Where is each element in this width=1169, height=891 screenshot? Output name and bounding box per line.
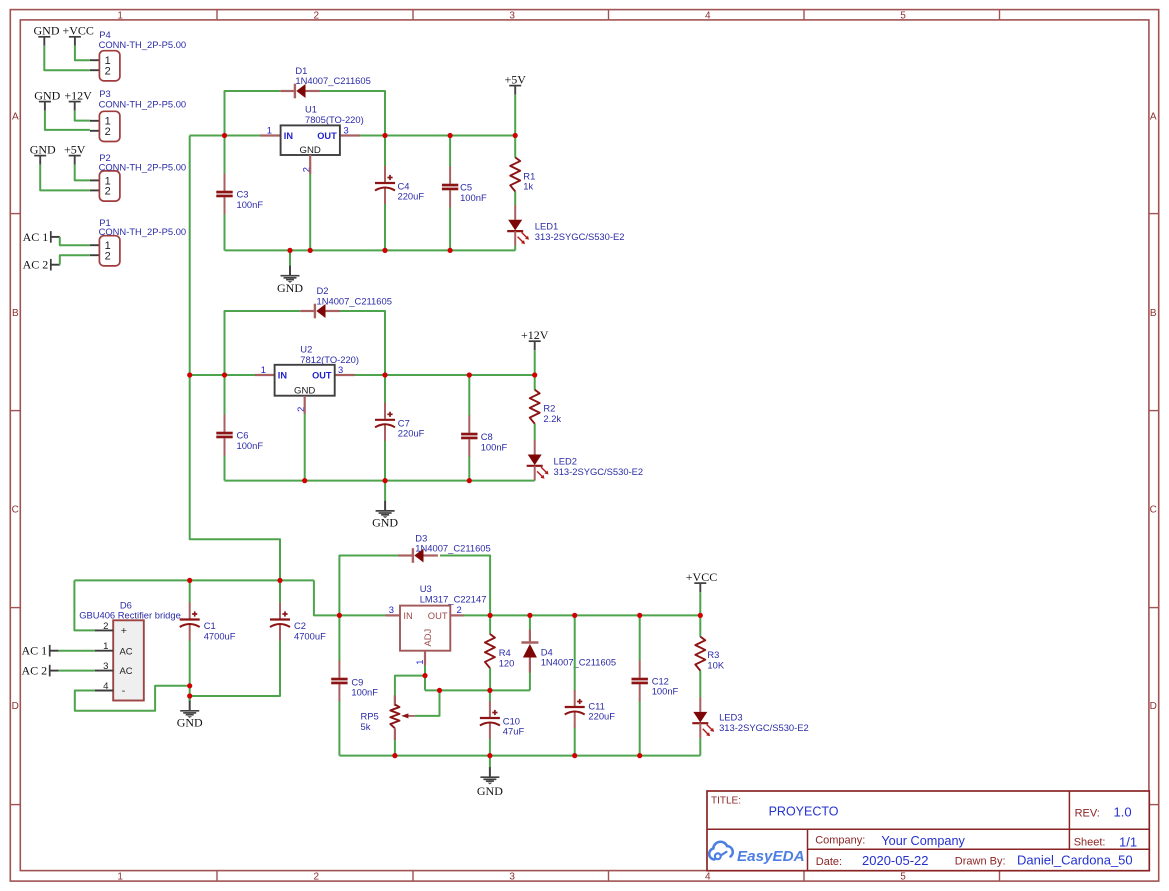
junction at (304.7,480.6) (302, 478, 307, 483)
svg-text:EasyEDA: EasyEDA (737, 848, 805, 865)
svg-text:CONN-TH_2P-P5.00: CONN-TH_2P-P5.00 (99, 98, 187, 109)
junction at (385,375) (382, 372, 387, 377)
svg-text:R3: R3 (707, 649, 719, 660)
wire U2 pin2 down (304, 414, 306, 481)
svg-text:7805(TO-220): 7805(TO-220) (305, 114, 364, 125)
wire C7 column (384, 375, 386, 481)
svg-text:2: 2 (105, 126, 111, 138)
label D2 (317, 285, 392, 306)
svg-text:Drawn By:: Drawn By: (955, 856, 1006, 868)
wire bridge top (74, 579, 314, 581)
U2 pin3 stub (335, 374, 355, 376)
EasyEDA logo (709, 842, 804, 865)
svg-text:D: D (12, 701, 19, 712)
wire loop D1 right (320, 91, 385, 136)
svg-text:U1: U1 (305, 104, 317, 115)
label R2 (543, 403, 561, 424)
svg-text:Company:: Company: (815, 835, 865, 847)
resistor R4 (485, 634, 495, 668)
svg-text:220uF: 220uF (398, 191, 425, 202)
label LED2 (554, 456, 644, 477)
junction at (489.9,690.4) (487, 688, 492, 693)
svg-text:+5V: +5V (504, 72, 526, 86)
D6 pin stubs (95, 630, 114, 690)
regulator U1 box (281, 125, 340, 155)
svg-text:AC 2: AC 2 (22, 664, 48, 678)
junction at (700.3,615.4) (698, 613, 703, 618)
capacitor C10 (480, 701, 500, 739)
svg-text:1k: 1k (523, 181, 533, 192)
svg-text:10K: 10K (707, 660, 724, 671)
wire R4 column (489, 615, 491, 690)
svg-text:GND: GND (372, 516, 398, 530)
capacitor C1 (180, 603, 200, 641)
junction at (290,250.4) (287, 248, 292, 253)
label U1 (305, 104, 364, 126)
svg-text:U3: U3 (420, 583, 432, 594)
svg-text:RP5: RP5 (361, 711, 379, 722)
label GND1 (277, 281, 303, 295)
svg-text:LED2: LED2 (554, 456, 577, 467)
label P3 (99, 88, 187, 110)
junction at (189.7,696) (187, 693, 192, 698)
svg-text:5: 5 (900, 871, 906, 882)
LED LED1 (507, 205, 529, 246)
power flag +VCC (686, 570, 717, 592)
diode D3 (398, 548, 438, 563)
svg-text:C7: C7 (398, 417, 410, 428)
junction at (189.7,375) (187, 372, 192, 377)
svg-text:D: D (1150, 701, 1157, 712)
svg-text:1: 1 (117, 871, 123, 882)
svg-text:B: B (12, 308, 19, 319)
U3 pin numbers (389, 604, 462, 665)
port GND P2 (30, 142, 56, 164)
svg-text:Date:: Date: (816, 856, 842, 868)
label C6 (237, 430, 264, 451)
wire R1 column (514, 136, 516, 251)
svg-text:Daniel_Cardona_50: Daniel_Cardona_50 (1017, 853, 1133, 868)
wire R2 column (534, 375, 536, 481)
port AC 2 P1 (23, 258, 60, 272)
U1 pin3 stub (340, 134, 360, 136)
svg-text:2.2k: 2.2k (543, 413, 561, 424)
label U3 (420, 583, 487, 604)
wire adj rail (425, 689, 530, 691)
label C1 (204, 620, 236, 641)
svg-text:AC: AC (120, 645, 133, 656)
label C5 (460, 182, 487, 203)
wire GND to P4.2 (44, 46, 90, 70)
svg-text:3: 3 (338, 364, 343, 375)
svg-text:C12: C12 (652, 675, 669, 686)
connector P3 (90, 111, 120, 141)
date row (816, 853, 1133, 869)
junction at (385,250.4) (382, 248, 387, 253)
wire rail1 (225, 249, 516, 251)
junction at (385.1,480.6) (383, 478, 388, 483)
svg-text:2: 2 (314, 871, 320, 882)
label C2 (294, 620, 326, 641)
svg-text:D6: D6 (120, 599, 132, 610)
svg-text:4: 4 (705, 871, 711, 882)
svg-text:A: A (12, 112, 19, 123)
svg-text:1N4007_C211605: 1N4007_C211605 (415, 543, 490, 554)
svg-text:D4: D4 (541, 646, 553, 657)
svg-text:313-2SYGC/S530-E2: 313-2SYGC/S530-E2 (554, 466, 644, 477)
ground GND1 (281, 250, 300, 283)
ground GND2 (376, 481, 395, 518)
svg-text:-: - (122, 685, 126, 697)
label R3 (707, 649, 724, 670)
wire main1 left (190, 135, 262, 137)
svg-text:D1: D1 (295, 65, 307, 76)
svg-text:GND: GND (277, 281, 303, 295)
svg-text:313-2SYGC/S530-E2: 313-2SYGC/S530-E2 (535, 231, 625, 242)
label D4 (541, 646, 616, 667)
junction at (574.7,755.6) (572, 753, 577, 758)
port AC 1 P1 (23, 230, 60, 244)
svg-text:C6: C6 (237, 430, 249, 441)
junction at (469.3,480.6) (467, 478, 472, 483)
regulator U3 box (400, 606, 450, 651)
label RP5 (361, 711, 379, 732)
label D1 (295, 65, 370, 86)
wire +VCC down (699, 592, 701, 615)
wire ADJ down (424, 666, 426, 691)
wire +5V down (514, 95, 516, 136)
LED LED2 (527, 440, 549, 481)
label R4 (499, 647, 515, 668)
svg-text:GND: GND (30, 142, 56, 156)
capacitor C12 (632, 661, 648, 702)
U2 pin1 stub (255, 374, 275, 376)
label P4 (99, 29, 187, 50)
junction at (425,675.6) (422, 673, 427, 678)
svg-text:120: 120 (499, 658, 515, 669)
port AC 1 bridge (22, 644, 59, 658)
svg-text:C4: C4 (398, 180, 410, 191)
wire loop D3 right (440, 556, 490, 616)
title text (711, 795, 839, 818)
wire AC2 to D6 (59, 670, 95, 672)
svg-text:2: 2 (103, 621, 108, 632)
U3 pin2 stub (450, 614, 464, 616)
wire D6 pin4 loop (75, 686, 190, 711)
svg-text:100nF: 100nF (460, 192, 487, 203)
svg-text:OUT: OUT (428, 610, 448, 621)
svg-text:GBU406 Rectifier bridge: GBU406 Rectifier bridge (79, 610, 181, 621)
rectifier bridge D6 box (113, 620, 144, 700)
wire C2 top (279, 580, 281, 603)
wire R3 column (699, 615, 701, 755)
U2 pin names (278, 371, 332, 397)
svg-text:IN: IN (403, 610, 412, 621)
svg-text:AC: AC (120, 665, 133, 676)
label D3 (415, 532, 490, 553)
svg-text:C5: C5 (460, 182, 472, 193)
resistor R1 (510, 157, 520, 191)
wire C12 column (639, 615, 641, 755)
junction at (489.9,755.6) (487, 753, 492, 758)
svg-text:3: 3 (344, 124, 349, 135)
wire RP5 bottom (394, 740, 396, 756)
label GND4 (477, 784, 503, 798)
wire tall vertical to bridge (190, 136, 280, 581)
svg-text:4700uF: 4700uF (204, 630, 236, 641)
label C10 (503, 715, 525, 736)
U3 ADJ stub (424, 651, 426, 666)
junction at (515.2,135.5) (513, 133, 518, 138)
svg-text:LED3: LED3 (719, 712, 742, 723)
wire bridge to U3 (314, 580, 387, 615)
D6 pin names (120, 625, 133, 697)
diode D2 (300, 304, 340, 319)
rev text (1075, 805, 1132, 820)
svg-text:U2: U2 (300, 343, 312, 354)
wire loop D3 left-top (339, 556, 399, 616)
svg-text:C10: C10 (503, 715, 520, 726)
capacitor C5 (442, 167, 458, 208)
label P2 (99, 152, 187, 172)
junction at (394.9,755.6) (392, 753, 397, 758)
label C12 (652, 675, 679, 696)
svg-text:1: 1 (414, 660, 425, 665)
junction at (450.1,135.5) (448, 133, 453, 138)
svg-text:2020-05-22: 2020-05-22 (862, 853, 929, 868)
svg-text:1N4007_C211605: 1N4007_C211605 (317, 295, 392, 306)
wire C6 column (224, 375, 226, 481)
label R1 (523, 170, 535, 191)
wire AC1 to P1.1 (60, 237, 90, 245)
svg-text:AC 1: AC 1 (23, 230, 49, 244)
junction at (339.4,615.4) (337, 613, 342, 618)
wire C11 column (574, 615, 576, 755)
junction at (450.1,250.4) (448, 248, 453, 253)
label C11 (588, 700, 615, 721)
junction at (280,580.4) (277, 578, 282, 583)
U3 pin names (403, 610, 447, 646)
diode D4 (521, 630, 538, 673)
svg-text:3: 3 (103, 661, 108, 672)
svg-text:Your Company: Your Company (881, 834, 965, 848)
junction at (224.5,375) (222, 372, 227, 377)
svg-text:313-2SYGC/S530-E2: 313-2SYGC/S530-E2 (719, 722, 809, 733)
capacitor C4 (375, 166, 395, 204)
wire AC1 to D6 (59, 650, 95, 652)
svg-text:100nF: 100nF (351, 687, 378, 698)
svg-text:1N4007_C211605: 1N4007_C211605 (295, 75, 370, 86)
svg-text:TITLE:: TITLE: (711, 795, 741, 806)
svg-text:7812(TO-220): 7812(TO-220) (300, 354, 359, 365)
svg-text:3: 3 (509, 871, 515, 882)
wire D4 column (529, 615, 531, 690)
D6 pin numbers (103, 621, 109, 692)
wire main2 left (190, 374, 256, 376)
wire loop D2 right (340, 311, 386, 375)
label GND2 (372, 516, 398, 530)
svg-text:B: B (1150, 308, 1157, 319)
svg-text:1: 1 (117, 10, 123, 21)
svg-text:C: C (1150, 504, 1157, 515)
svg-text:P3: P3 (99, 88, 110, 99)
potentiometer RP5 (390, 695, 415, 740)
regulator U2 box (275, 365, 335, 396)
junction at (189.7,580.4) (187, 578, 192, 583)
svg-text:D2: D2 (317, 285, 329, 296)
junction at (639.7,755.6) (637, 753, 642, 758)
port AC 2 bridge (22, 664, 59, 678)
svg-text:AC 2: AC 2 (23, 258, 49, 272)
svg-text:C9: C9 (351, 676, 363, 687)
svg-text:GND: GND (177, 716, 203, 730)
junction at (639.7,615.4) (637, 613, 642, 618)
wire C10 column (489, 690, 491, 755)
port GND P4 (34, 24, 60, 46)
wire AC2 to P1.2 (60, 255, 90, 265)
wire U1 pin2 down (309, 174, 311, 250)
svg-text:LM317_C22147: LM317_C22147 (420, 593, 487, 604)
U3 pin3 stub (386, 614, 401, 616)
svg-text:2: 2 (457, 604, 462, 615)
svg-text:CONN-TH_2P-P5.00: CONN-TH_2P-P5.00 (99, 161, 187, 172)
connector P1 (90, 236, 120, 266)
capacitor C11 (565, 690, 585, 728)
wire C4 column (384, 136, 386, 251)
svg-text:IN: IN (278, 371, 288, 381)
wire loop D1 left-top (225, 91, 281, 136)
U1 pin1 stub (260, 134, 280, 136)
svg-text:GND: GND (300, 145, 321, 156)
svg-text:PROYECTO: PROYECTO (769, 805, 839, 819)
junction at (439.5,690.4) (437, 688, 442, 693)
label GND3 (177, 716, 203, 730)
svg-text:2: 2 (105, 65, 111, 77)
svg-text:CONN-TH_2P-P5.00: CONN-TH_2P-P5.00 (99, 39, 187, 50)
svg-text:C8: C8 (481, 431, 493, 442)
label C3 (237, 189, 264, 210)
LED LED3 (692, 697, 714, 738)
port +12V P3 (64, 88, 92, 110)
U2 pin2 stub (304, 396, 306, 414)
svg-text:+5V: +5V (64, 142, 86, 156)
wire 12V to P3.1 (75, 111, 90, 121)
wire 5V to P2.1 (75, 165, 90, 181)
svg-text:GND: GND (477, 784, 503, 798)
svg-text:R1: R1 (523, 170, 535, 181)
label C7 (398, 417, 425, 438)
svg-text:Sheet:: Sheet: (1074, 837, 1106, 849)
label C8 (481, 431, 508, 452)
label LED1 (535, 221, 625, 242)
label P1 (99, 217, 187, 237)
capacitor C6 (216, 415, 232, 456)
svg-text:ADJ: ADJ (422, 629, 433, 647)
svg-text:220uF: 220uF (398, 428, 425, 439)
capacitor C3 (216, 174, 232, 215)
wire main3 right (463, 614, 700, 616)
svg-text:+12V: +12V (64, 88, 92, 102)
wire GND to P2.2 (40, 165, 90, 191)
junction at (224.5,135.5) (222, 133, 227, 138)
wire C2 bottom (190, 640, 280, 696)
connector P2 (90, 171, 120, 201)
wire C5 column (449, 136, 451, 251)
power flag +12V (521, 328, 549, 350)
label LED3 (719, 712, 809, 733)
svg-text:GND: GND (34, 24, 60, 38)
U1 pin names (284, 131, 337, 156)
port +VCC P4 (62, 24, 93, 46)
wire C9 column (338, 615, 340, 755)
junction at (385,135.5) (382, 133, 387, 138)
junction at (469.3,375) (467, 372, 472, 377)
svg-text:1N4007_C211605: 1N4007_C211605 (541, 657, 616, 668)
U1 pin numbers (267, 124, 349, 172)
svg-text:220uF: 220uF (588, 711, 615, 722)
company row (815, 834, 965, 848)
svg-text:3: 3 (509, 10, 515, 21)
svg-text:2: 2 (105, 250, 111, 262)
svg-text:GND: GND (294, 385, 315, 396)
svg-text:+: + (121, 625, 127, 637)
svg-text:C: C (12, 504, 19, 515)
svg-text:GND: GND (34, 88, 60, 102)
junction at (534.7,375) (532, 372, 537, 377)
svg-text:3: 3 (389, 604, 394, 615)
wire C8 column (468, 375, 470, 481)
junction at (310.2,250.4) (308, 248, 313, 253)
U2 pin numbers (261, 364, 343, 412)
capacitor C9 (331, 661, 347, 702)
wire bridge left to pin2 (74, 580, 94, 630)
label C4 (398, 180, 425, 201)
label U2 (300, 343, 359, 364)
label D6 (79, 599, 181, 620)
wire GND to P3.2 (45, 111, 90, 130)
svg-text:100nF: 100nF (237, 199, 264, 210)
svg-text:A: A (1150, 112, 1157, 123)
wire C1 column (189, 580, 191, 701)
svg-text:+12V: +12V (521, 328, 549, 342)
wire main1 right (359, 135, 515, 137)
svg-text:OUT: OUT (317, 131, 337, 141)
wire VCC to P4.1 (75, 46, 90, 60)
sheet text (1074, 835, 1137, 850)
svg-text:100nF: 100nF (481, 441, 508, 452)
wire ADJ to RP5 (395, 676, 425, 706)
svg-text:2: 2 (105, 186, 111, 198)
svg-text:R4: R4 (499, 647, 511, 658)
ground GND3 (180, 696, 199, 718)
svg-text:+VCC: +VCC (686, 570, 717, 584)
port GND P3 (34, 88, 60, 110)
wire main2 right (354, 374, 535, 376)
svg-text:1: 1 (103, 641, 108, 652)
svg-text:C3: C3 (237, 189, 249, 200)
svg-text:1: 1 (261, 364, 266, 375)
svg-text:47uF: 47uF (503, 726, 525, 737)
svg-text:5k: 5k (361, 721, 371, 732)
junction at (490.1,615.4) (488, 613, 493, 618)
label C9 (351, 676, 378, 697)
svg-text:C2: C2 (294, 620, 306, 631)
ground GND4 (480, 756, 499, 785)
svg-text:AC 1: AC 1 (22, 644, 48, 658)
connector P4 (90, 51, 120, 81)
junction at (189.7,685.8) (187, 683, 192, 688)
capacitor C8 (461, 416, 477, 457)
